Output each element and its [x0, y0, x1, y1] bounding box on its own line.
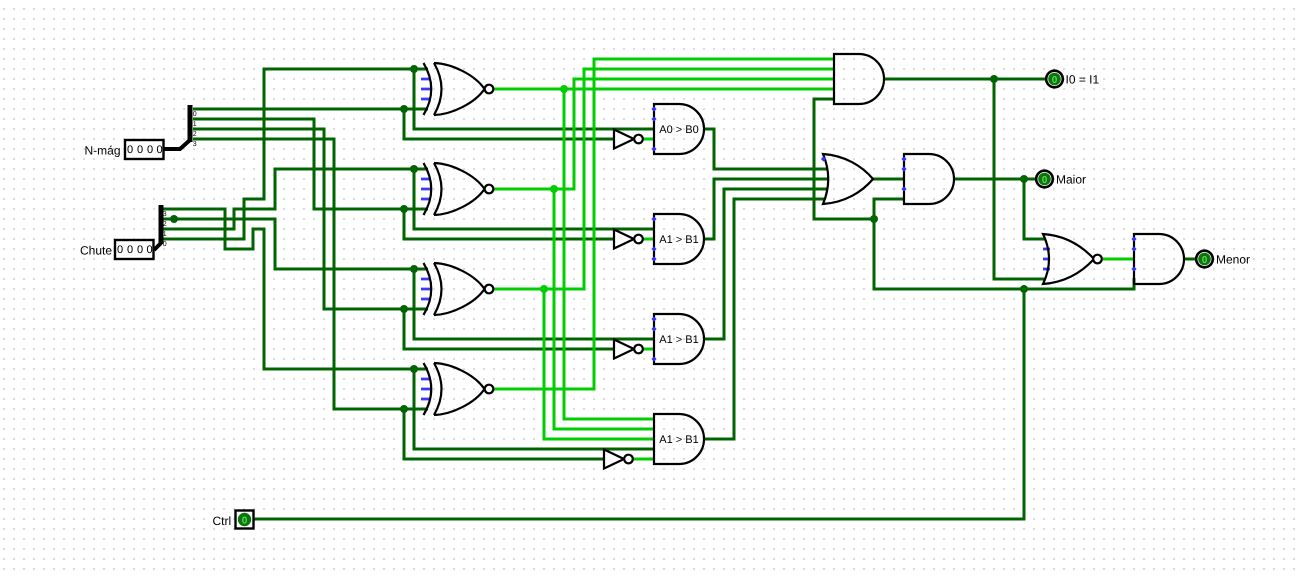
inverter U7 — [614, 340, 643, 359]
wire XNOR U3 output up col x584 to AND G8 input 2 — [493, 69, 834, 289]
svg-text:0: 0 — [117, 244, 123, 256]
svg-text:A1 > B1: A1 > B1 — [659, 234, 698, 246]
junction net B3 at (414,369) — [410, 365, 418, 373]
wire net B3 branch: junction to AND G4 input — [414, 369, 654, 449]
svg-text:0: 0 — [163, 241, 167, 248]
junction net A3 at (404,409) — [400, 405, 408, 413]
junction net A0 at (404,109) — [400, 105, 408, 113]
wire net A1: N-mag bit1 splitter right then down col x314 to XNOR U2 lower input — [193, 119, 428, 209]
wire net Ctrl: junction down and across to AND G12 input 5 — [874, 219, 1134, 289]
wire XNOR U2 output up col x574 to AND G8 input 3 — [493, 79, 834, 189]
input pin N-mag (4-bit value 0000) — [125, 140, 164, 159]
junction XNOR U3 output at (544,289) — [540, 285, 548, 293]
wire AND G10 output to pin Maior — [954, 178, 1036, 181]
and gate G3 label A1 > B1 — [651, 314, 704, 364]
wire net B2 branch: junction to AND G3 input — [414, 269, 654, 339]
junction stray dot on Chute bit2 wire at (174,219) — [170, 215, 178, 223]
wire net B2: Chute bit2 right then down col x275 to XNOR U3 upper input — [162, 219, 428, 269]
junction Maior net at (1024,179) — [1020, 175, 1028, 183]
junction XNOR U2 output at (554,189) — [550, 185, 558, 193]
wire AND G8 equality output to pin I0=I1 — [884, 78, 1045, 81]
wire AND G3 output to OR G9 input 4 — [704, 189, 828, 339]
wire AND G12 output to pin Menor — [1184, 258, 1196, 261]
wire XNOR U1 output to AND G8 input 4 — [493, 88, 834, 91]
svg-text:1: 1 — [193, 121, 197, 128]
junction net A1 at (404,209) — [400, 205, 408, 213]
svg-text:N-mág: N-mág — [85, 144, 121, 158]
wire net A0 branch: junction to inverter U5 input — [404, 109, 615, 139]
svg-text:0: 0 — [146, 244, 152, 256]
junction Ctrl net at (1024,289) — [1020, 285, 1028, 293]
wire net Ctrl: junction up to AND G10 input 5 — [874, 199, 904, 219]
output pin Maior (value 0) — [1036, 171, 1053, 188]
and gate G10 drives Maior — [901, 154, 954, 204]
svg-text:0: 0 — [1052, 75, 1058, 86]
svg-text:I0 = I1: I0 = I1 — [1066, 72, 1100, 86]
svg-text:A1 > B1: A1 > B1 — [659, 434, 698, 446]
inverter U6 — [614, 230, 643, 249]
wire net A3 branch: junction to inverter U8 input — [404, 409, 605, 459]
xnor gate U1 (A0 xnor B0) — [421, 63, 493, 115]
output pin Menor (value 0) — [1196, 251, 1213, 268]
or gate G9 — [821, 154, 873, 204]
splitter SP1 for N-mag (fan-out 4, bits 0-3 top to bottom) — [164, 105, 197, 149]
wire inverter U8 output to AND G4 input — [633, 458, 654, 461]
svg-text:A1 > B1: A1 > B1 — [659, 334, 698, 346]
nor gate G11 — [1043, 234, 1102, 284]
wire net A2 branch: junction to inverter U7 input — [404, 309, 615, 349]
svg-text:0: 0 — [1202, 255, 1208, 266]
junction equality net at (994,79) — [990, 75, 998, 83]
svg-text:0: 0 — [127, 244, 133, 256]
inverter U8 — [604, 450, 633, 469]
wire net A0: N-mag bit0 splitter to XNOR U1 lower input — [193, 108, 428, 111]
input pin Chute (4-bit value 0000) — [115, 240, 154, 259]
svg-text:1: 1 — [163, 231, 167, 238]
svg-text:Menor: Menor — [1216, 252, 1250, 266]
and gate G4 label A1 > B1 — [654, 414, 704, 464]
svg-text:A0 > B0: A0 > B0 — [659, 124, 698, 136]
junction net B2 at (414,269) — [410, 265, 418, 273]
xnor gate U3 (A2 xnor B2) — [421, 263, 493, 315]
inverter U5 — [614, 130, 643, 149]
junction Ctrl net at (874,219) — [870, 215, 878, 223]
wire AND G1 output to OR G9 input 2 — [704, 129, 828, 169]
wire inverter U7 output to AND G3 input — [643, 348, 654, 351]
wire inverter U6 output to AND G2 input — [643, 238, 654, 241]
svg-text:0: 0 — [156, 144, 162, 156]
wire AND G2 output to OR G9 input 3 — [704, 179, 829, 239]
and gate G1 label A0 > B0 — [651, 104, 704, 154]
wire net B1 branch: junction to AND G2 input — [414, 169, 654, 229]
svg-text:2: 2 — [163, 221, 167, 228]
wire net A1 branch: junction to inverter U6 input — [404, 209, 615, 239]
svg-text:0: 0 — [137, 244, 143, 256]
svg-text:0: 0 — [147, 144, 153, 156]
svg-text:Ctrl: Ctrl — [213, 514, 232, 528]
wire AND G4 output to OR G9 input 5 — [704, 199, 825, 439]
wire net B3: Chute bit3 nested elbows down col x264 to XNOR U4 upper input — [162, 209, 428, 369]
wire Maior branch: junction down col x1024 to NOR G11 upper input — [1024, 179, 1046, 239]
junction net B0 at (414,69) — [410, 65, 418, 73]
wire NOR G11 output to AND G12 input — [1103, 258, 1134, 261]
xnor gate U2 (A1 xnor B1) — [421, 163, 493, 215]
wire net B0 branch: junction to AND G1 input — [414, 69, 654, 129]
svg-text:0: 0 — [1042, 175, 1048, 186]
input pin Ctrl (1-bit value 0) — [236, 511, 254, 529]
wire net Ctrl: pin Ctrl to junction at x1024 — [254, 289, 1024, 519]
and gate G2 label A1 > B1 — [651, 214, 704, 264]
svg-text:Chute: Chute — [80, 244, 112, 258]
svg-text:0: 0 — [127, 144, 133, 156]
and gate G12 drives Menor — [1131, 234, 1184, 284]
wire net B1: Chute bit1 jog at y209 up col x275 to XNOR U2 upper input — [162, 169, 428, 229]
junction net B1 at (414,169) — [410, 165, 418, 173]
junction net A2 at (404,309) — [400, 305, 408, 313]
wire net Ctrl: elbow from AND G8 input 5 down to junction x874 — [814, 99, 874, 219]
wire net A3: N-mag bit3 splitter down col x334 to XNOR U4 lower input — [193, 139, 428, 409]
junction XNOR U1 output at (564,89) — [560, 85, 568, 93]
splitter SP2 for Chute (fan-out 4, bits 3-0 top to bottom) — [154, 205, 167, 250]
svg-text:Maior: Maior — [1056, 172, 1086, 186]
svg-text:0: 0 — [193, 111, 197, 118]
output pin I0=I1 (value 0) — [1046, 71, 1063, 88]
wire XNOR U4 output up col x594 to AND G8 input 1 — [493, 59, 834, 389]
wire equality branch: junction down col x994 to NOR G11 lower input — [994, 79, 1046, 279]
and gate G8 equality detector — [834, 54, 884, 104]
svg-text:0: 0 — [137, 144, 143, 156]
wire XNOR U1 output branch: junction down col x564 to AND G4 input 1 — [564, 89, 654, 419]
wire XNOR U3 output branch: junction down col x544 to AND G4 input 3 — [544, 289, 654, 439]
wire net B0: Chute bit0 up col x244 across to XNOR U1 upper input — [162, 69, 428, 239]
svg-text:3: 3 — [193, 141, 197, 148]
wire net A2: N-mag bit2 splitter down col x324 to XNOR U3 lower input — [193, 129, 428, 309]
svg-text:3: 3 — [163, 211, 167, 218]
wire inverter U5 output to AND G1 input — [643, 138, 654, 141]
wire XNOR U2 output branch: junction down col x554 to AND G4 input 2 — [554, 189, 654, 429]
wire OR G9 output to AND G10 input — [872, 178, 904, 181]
svg-text:2: 2 — [193, 131, 197, 138]
svg-text:0: 0 — [242, 516, 248, 527]
xnor gate U4 (A3 xnor B3) — [421, 363, 493, 415]
